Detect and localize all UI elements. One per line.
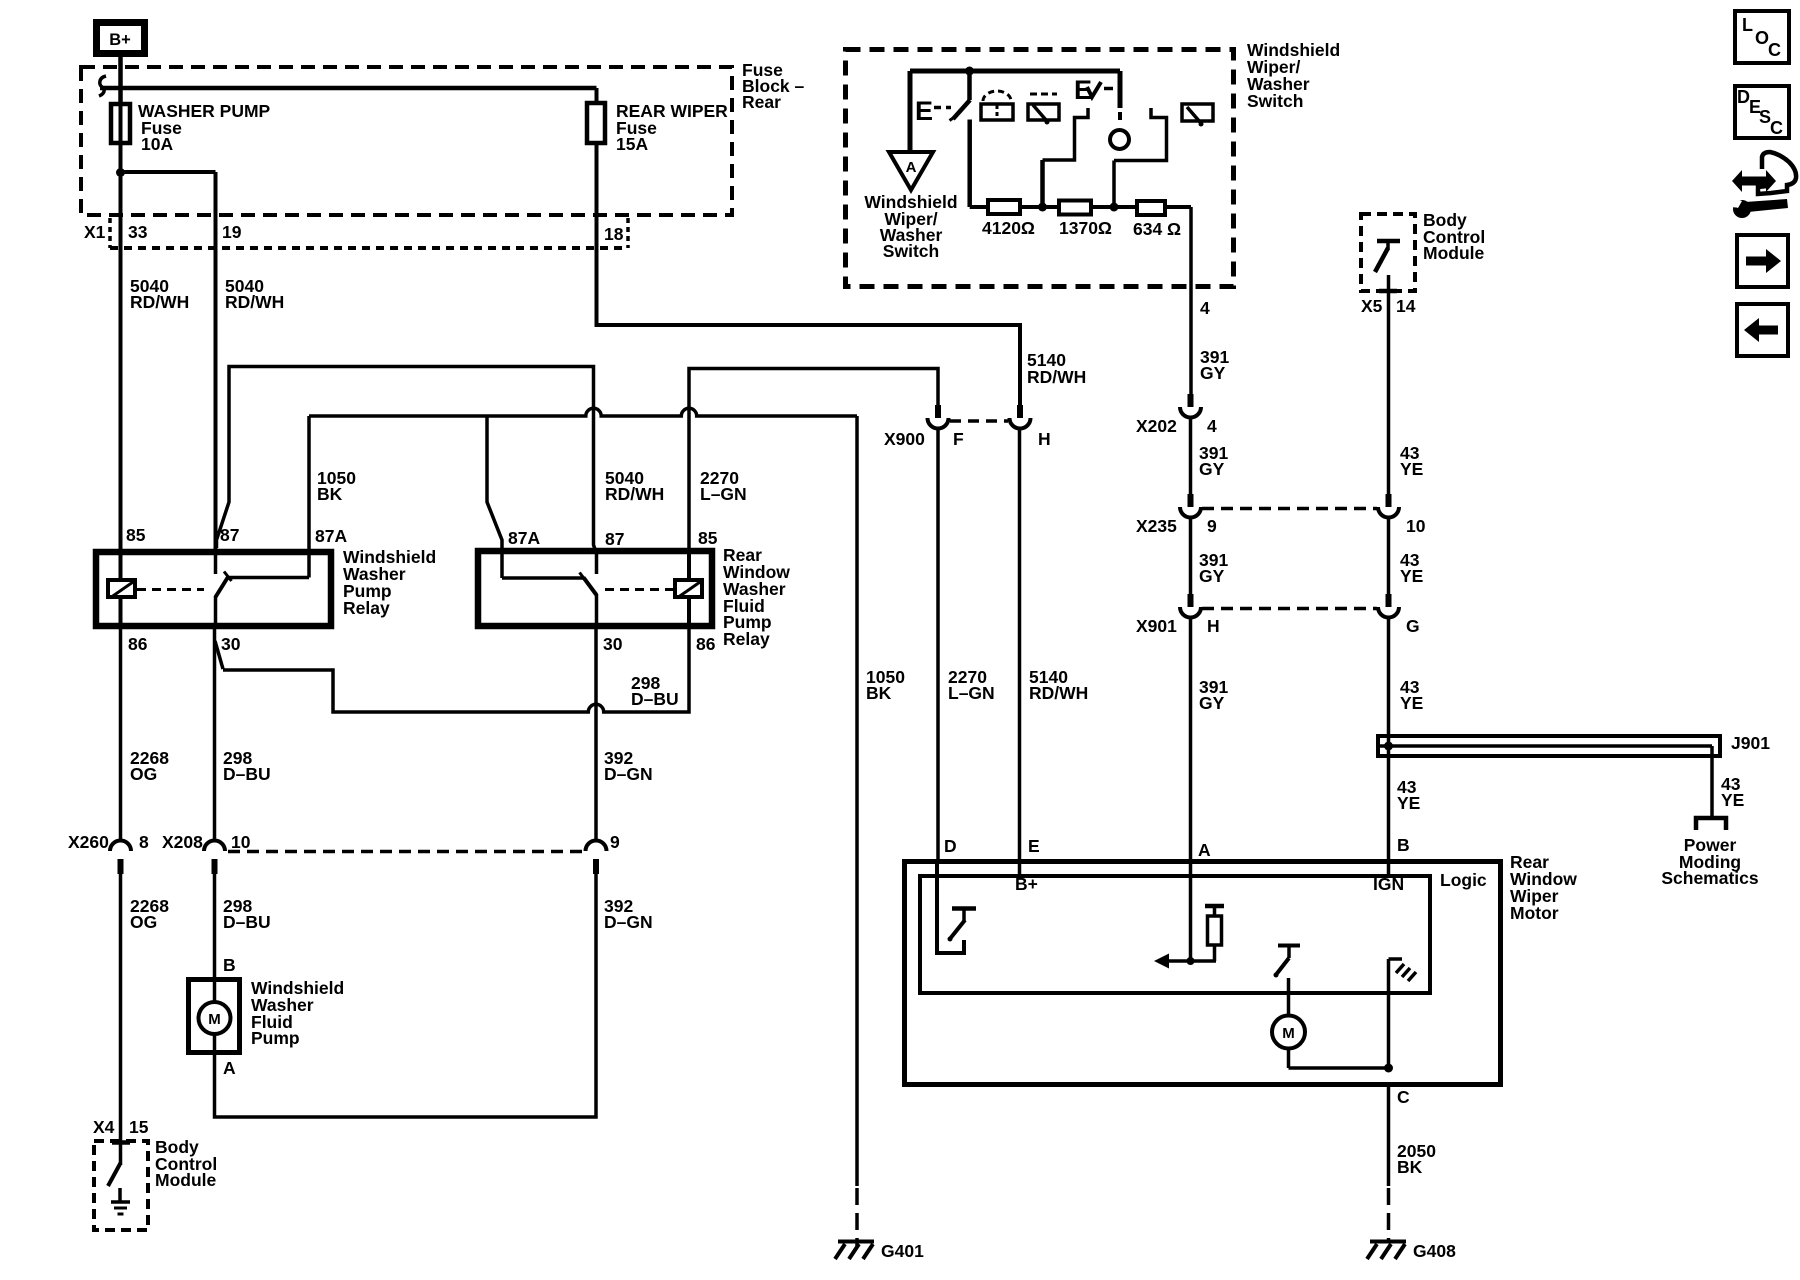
splice pack J901: [1378, 736, 1720, 816]
svg-text:X901: X901: [1136, 616, 1177, 636]
svg-text:X5: X5: [1361, 296, 1383, 316]
svg-text:30: 30: [221, 634, 241, 654]
svg-text:IGN: IGN: [1373, 874, 1404, 894]
switch name label (inside): [864, 192, 957, 261]
svg-text:Pump: Pump: [251, 1028, 300, 1048]
relay K1 pin 86 label: [128, 634, 148, 654]
fuse REAR WIPER 15A: [587, 88, 605, 143]
triangle connector A: [889, 152, 933, 190]
wire 5140 RD/WH fuse 18 to X900-H: [597, 250, 1021, 405]
label X900: [884, 429, 925, 449]
relay K2 pin 30 label: [603, 634, 623, 654]
label 2050 BK: [1397, 1141, 1436, 1177]
wire 391 GY X202 to X235: [1189, 418, 1193, 495]
svg-text:D: D: [944, 836, 957, 856]
wire 298 D-BU X208 to pump B: [213, 874, 217, 977]
svg-text:8: 8: [139, 832, 149, 852]
motor pin A label: [1198, 840, 1211, 860]
icon washer (wash position): [981, 91, 1013, 121]
svg-text:M: M: [1282, 1025, 1295, 1042]
wire pin C out: [1387, 1085, 1391, 1186]
rear window wiper motor box: [905, 862, 1501, 1085]
wire D into logic: [937, 859, 964, 953]
BCM X4 name label: [155, 1137, 217, 1190]
svg-text:15: 15: [129, 1117, 149, 1137]
label 391 GY (X235-X901): [1199, 550, 1228, 586]
motor name label: [1510, 852, 1577, 923]
label 43 YE (below J901): [1397, 777, 1420, 813]
relay K1 contact 87A link: [229, 552, 309, 578]
wire motor M to pin C: [1289, 1049, 1389, 1069]
wire 43 YE X235 to X901: [1387, 518, 1391, 595]
label X5 pin 14: [1396, 296, 1416, 316]
BCM X5 name label: [1423, 210, 1485, 263]
svg-text:Module: Module: [1423, 243, 1485, 263]
label X900 pin F: [953, 429, 964, 449]
wire A into logic: [1189, 859, 1193, 961]
label X901: [1136, 616, 1177, 636]
label 43 YE (branch): [1721, 774, 1744, 810]
svg-text:Relay: Relay: [723, 629, 770, 649]
label Logic: [1440, 870, 1487, 890]
connector X235 dashed link: [1202, 507, 1377, 511]
relay K2 pin 87A label: [508, 528, 540, 548]
svg-text:Motor: Motor: [1510, 903, 1559, 923]
svg-text:GY: GY: [1199, 693, 1225, 713]
label 392 D-GN (lower): [604, 896, 653, 932]
switch pin 4 label: [1200, 298, 1210, 318]
icon button DESC: [1735, 86, 1789, 138]
resistor 634 ohm: [1137, 201, 1165, 215]
junction at J901: [1384, 742, 1393, 751]
svg-text:4: 4: [1200, 298, 1210, 318]
rotary contact O: [1110, 130, 1129, 149]
label 5040 RD/WH (33): [130, 276, 189, 312]
junction at pin C net: [1384, 1064, 1393, 1073]
wire 391 GY X235 to X901: [1189, 518, 1193, 595]
icon button LOC: [1735, 11, 1789, 63]
connector X208 pin 10: [204, 841, 225, 874]
svg-text:D–BU: D–BU: [223, 764, 271, 784]
position sensor resistor (A): [1154, 906, 1224, 969]
svg-text:OG: OG: [130, 912, 157, 932]
svg-text:RD/WH: RD/WH: [1029, 683, 1088, 703]
windshield washer fluid pump motor: [189, 977, 240, 1055]
svg-text:X4: X4: [93, 1117, 115, 1137]
switch ladder wire (rear): [1110, 108, 1167, 212]
svg-text:L–GN: L–GN: [948, 683, 995, 703]
svg-text:B+: B+: [1015, 874, 1038, 894]
svg-text:30: 30: [603, 634, 623, 654]
pin 19: [222, 222, 242, 242]
svg-text:87: 87: [220, 525, 239, 545]
BCM X5 dashed box: [1361, 214, 1415, 291]
svg-text:Logic: Logic: [1440, 870, 1487, 890]
svg-text:D–BU: D–BU: [223, 912, 271, 932]
svg-text:M: M: [208, 1011, 221, 1028]
label REAR WIPER Fuse 15A: [616, 101, 728, 154]
connector X260 pin 8: [110, 841, 131, 874]
svg-text:D–GN: D–GN: [604, 912, 653, 932]
switch output wire pin 4: [1189, 207, 1193, 394]
svg-text:87A: 87A: [315, 526, 347, 546]
BCM X4 internal switch blade: [108, 1163, 121, 1186]
relay K1 contact 87 stub: [214, 552, 218, 574]
label X235 pin 9: [1207, 516, 1217, 536]
wire 392 D-GN X208-9 to pump A: [215, 874, 597, 1117]
relay K2 Rear Window Washer Fluid Pump Relay box: [478, 551, 712, 626]
label WASHER PUMP Fuse 10A: [138, 101, 271, 154]
svg-text:1370Ω: 1370Ω: [1059, 218, 1112, 238]
label IGN (logic): [1373, 874, 1404, 894]
BCM X4 entry tick: [112, 1140, 130, 1145]
icon jump-to-schematic (arrows and wrench): [1726, 152, 1796, 218]
relay K1 pin 87A label: [315, 526, 347, 546]
connector X901 pin H: [1180, 594, 1201, 618]
svg-text:634 Ω: 634 Ω: [1133, 219, 1181, 239]
wire 1050 BK dashed tail to G401: [855, 1188, 859, 1246]
label X260 pin 8: [139, 832, 149, 852]
bus wire to rear wiper fuse: [100, 86, 597, 91]
svg-text:Switch: Switch: [883, 241, 939, 261]
pump pin B label: [223, 955, 236, 975]
wire 2270 L-GN relay2-85 to X900-F: [689, 369, 938, 553]
label 391 GY (pin4): [1200, 347, 1229, 383]
relay K1 Windshield Washer Pump Relay box: [96, 552, 331, 626]
switch wiper blade E: [950, 71, 971, 121]
label X208: [162, 832, 203, 852]
icon rear wiper: [1182, 104, 1213, 127]
label X900 pin H: [1038, 429, 1051, 449]
contact Ev label: [1074, 75, 1101, 105]
relay K1 blade: [216, 572, 232, 598]
wire B+ to washer pump fuse: [118, 57, 123, 104]
svg-text:86: 86: [128, 634, 148, 654]
motor pin D label: [944, 836, 957, 856]
label 4120 ohm: [982, 218, 1035, 238]
label 5040 RD/WH (net): [605, 468, 664, 504]
wire blade to motor M: [1287, 978, 1291, 1016]
label 298 D-BU (loop): [631, 673, 679, 709]
svg-text:RD/WH: RD/WH: [605, 484, 664, 504]
BCM X5 internal contact: [1377, 241, 1400, 250]
wire 2268 OG relay1-86 to X260: [119, 629, 123, 840]
label 2268 OG (upper): [130, 748, 169, 784]
svg-text:H: H: [1207, 616, 1220, 636]
label 392 D-GN (upper): [604, 748, 653, 784]
svg-text:G401: G401: [881, 1241, 924, 1261]
label Power Moding Schematics: [1661, 835, 1759, 888]
BCM X5 exit tick: [1379, 289, 1397, 294]
switch assembly name label (right): [1247, 40, 1340, 111]
connector X208 pin 9: [586, 841, 607, 874]
svg-text:YE: YE: [1397, 793, 1420, 813]
svg-text:86: 86: [696, 634, 716, 654]
svg-text:Module: Module: [155, 1170, 217, 1190]
label J901: [1731, 733, 1770, 753]
label 2268 OG (lower): [130, 896, 169, 932]
svg-text:O: O: [1755, 28, 1769, 48]
label motor pin B: [1397, 835, 1410, 855]
wire through washer fuse: [119, 104, 123, 172]
contact Ev dash: [1104, 87, 1113, 91]
svg-text:X900: X900: [884, 429, 925, 449]
off-page connector to power moding: [1696, 818, 1726, 830]
junction washer fuse output: [116, 168, 125, 177]
bus curl symbol: [99, 76, 106, 96]
svg-text:J901: J901: [1731, 733, 1770, 753]
relay K2 pin 87 label: [605, 529, 624, 549]
svg-text:85: 85: [698, 528, 718, 548]
svg-text:L: L: [1742, 15, 1753, 35]
svg-text:C: C: [1768, 40, 1781, 60]
run switch contact (motor): [1278, 946, 1300, 959]
svg-text:Rear: Rear: [742, 92, 781, 112]
label 5140 RD/WH (top): [1027, 350, 1086, 387]
label 391 GY (to motor): [1199, 677, 1228, 713]
svg-text:15A: 15A: [616, 134, 648, 154]
label 1050 BK (left): [317, 468, 356, 504]
svg-text:YE: YE: [1400, 566, 1423, 586]
wire 391 GY X901 to motor A: [1189, 618, 1193, 860]
svg-text:BK: BK: [317, 484, 343, 504]
svg-text:H: H: [1038, 429, 1051, 449]
svg-text:14: 14: [1396, 296, 1416, 316]
pin 33: [128, 222, 148, 242]
wire 298 D-BU loop to relay2-86: [223, 629, 689, 712]
icon wiper (wipe position): [1028, 94, 1059, 125]
svg-text:4: 4: [1207, 416, 1217, 436]
connector X235 pin 10: [1378, 494, 1399, 518]
resistor 4120 ohm: [988, 200, 1020, 214]
svg-text:GY: GY: [1199, 459, 1225, 479]
relay K2 name label: [723, 545, 790, 649]
run switch blade (motor): [1274, 958, 1290, 978]
switch corner wire to O: [1118, 71, 1123, 120]
svg-text:F: F: [953, 429, 964, 449]
svg-text:9: 9: [610, 832, 620, 852]
park switch contact (D): [952, 909, 976, 923]
svg-text:D–GN: D–GN: [604, 764, 653, 784]
wire 5040 RD/WH relay1-87 to relay2-87: [217, 367, 597, 553]
wire 5040 RD/WH fuse 19 to relay 87: [214, 250, 218, 552]
connector X202 pin 4: [1180, 394, 1201, 418]
svg-text:OG: OG: [130, 764, 157, 784]
svg-text:9: 9: [1207, 516, 1217, 536]
ground G408: [1367, 1241, 1456, 1261]
svg-text:D–BU: D–BU: [631, 689, 679, 709]
connector X1 strip: [110, 218, 628, 248]
motor internal ground: [1389, 959, 1417, 1068]
svg-text:A: A: [1198, 840, 1211, 860]
svg-text:A: A: [223, 1058, 236, 1078]
fuse WASHER PUMP 10A: [111, 104, 130, 143]
wire 2050 BK dashed tail: [1387, 1188, 1391, 1240]
wire branch to pin 19: [121, 172, 216, 250]
switch ladder wire (wash): [1038, 108, 1088, 212]
label 2270 L-GN (lower): [948, 667, 995, 703]
label 5140 RD/WH (lower): [1029, 667, 1088, 703]
label 5040 RD/WH (19): [225, 276, 284, 312]
wire 43 YE X901 to motor B: [1387, 618, 1391, 860]
label 1050 BK (right): [866, 667, 905, 703]
label X208 pin 9: [610, 832, 620, 852]
label 391 GY (X202-X235): [1199, 443, 1228, 479]
label 43 YE (X5): [1400, 443, 1423, 479]
contact E label: [915, 96, 933, 126]
wire E into logic: [1018, 429, 1022, 876]
svg-text:X202: X202: [1136, 416, 1177, 436]
fuse block dashed box: [81, 67, 732, 215]
motor M: [1272, 1016, 1305, 1049]
label Fuse Block - Rear: [742, 60, 805, 112]
battery feed B+: [97, 23, 145, 54]
svg-text:X208: X208: [162, 832, 203, 852]
svg-text:RD/WH: RD/WH: [1027, 367, 1086, 387]
label X901 pin H: [1207, 616, 1220, 636]
relay K1 pin 85 label: [126, 525, 146, 545]
svg-text:10: 10: [231, 832, 251, 852]
wire 5040 RD/WH fuse 33 to relay coil 85: [119, 172, 123, 552]
relay K1 pin 87 label: [220, 525, 239, 545]
wire B into logic: [1387, 859, 1391, 876]
relay K2 pin 85 label: [698, 528, 718, 548]
switch resistor feed wire: [967, 120, 972, 208]
relay K1 pin 30 stub: [214, 596, 218, 629]
svg-text:A: A: [906, 159, 917, 176]
wire 1050 BK relay1-87A to ground run: [309, 408, 857, 1186]
BCM X4 dashed box: [94, 1141, 148, 1230]
connector X901 dashed link: [1202, 607, 1377, 611]
label X235: [1136, 516, 1177, 536]
svg-text:Relay: Relay: [343, 598, 390, 618]
connector X900 pin F: [928, 405, 949, 429]
svg-text:G408: G408: [1413, 1241, 1456, 1261]
wire 2268 OG X260 to BCM X4: [119, 874, 123, 1165]
label X5: [1361, 296, 1383, 316]
label X202: [1136, 416, 1177, 436]
label X202 pin 4: [1207, 416, 1217, 436]
svg-text:GY: GY: [1200, 363, 1226, 383]
wire 43 YE X5 to X235-10: [1387, 291, 1391, 494]
connector X901 pin G: [1378, 594, 1399, 618]
relay K2 coil: [675, 552, 702, 629]
relay K2 pin 30 stub: [595, 594, 599, 629]
svg-text:X1: X1: [84, 222, 106, 242]
svg-text:18: 18: [604, 224, 624, 244]
wire 2270 L-GN X900-F to motor D: [936, 429, 940, 860]
label B+ (logic): [1015, 874, 1038, 894]
svg-text:B: B: [223, 955, 236, 975]
resistor ladder wire: [970, 205, 1191, 209]
svg-text:GY: GY: [1199, 566, 1225, 586]
BCM X4 internal ground: [111, 1188, 130, 1214]
switch assembly dashed box: [846, 50, 1234, 287]
switch bus junction: [965, 67, 974, 76]
switch bus wire: [910, 71, 1120, 152]
wire 392 D-GN relay2-30 to X208-9: [594, 629, 598, 840]
label 2270 L-GN (net): [700, 468, 747, 504]
label X235 pin 10: [1406, 516, 1426, 536]
label 298 D-BU (upper): [223, 748, 271, 784]
label 298 D-BU (lower): [223, 896, 271, 932]
label 634 ohm: [1133, 219, 1181, 239]
svg-text:BK: BK: [866, 683, 892, 703]
svg-text:4120Ω: 4120Ω: [982, 218, 1035, 238]
svg-text:85: 85: [126, 525, 146, 545]
label X4: [93, 1117, 115, 1137]
svg-text:G: G: [1406, 616, 1420, 636]
wire 1050 BK branch to relay2-87A: [487, 416, 502, 552]
label motor pin C: [1397, 1087, 1410, 1107]
label X260: [68, 832, 109, 852]
relay K1 armature dashes: [137, 588, 204, 591]
svg-text:Switch: Switch: [1247, 91, 1303, 111]
svg-text:RD/WH: RD/WH: [130, 292, 189, 312]
wire 298 D-BU relay1-30 down to X208-10: [215, 629, 224, 840]
relay K1 coil: [108, 552, 135, 629]
svg-text:YE: YE: [1400, 693, 1423, 713]
BCM X5 output wire: [1387, 275, 1391, 291]
label 1370 ohm: [1059, 218, 1112, 238]
pin 18: [604, 224, 624, 244]
icon button previous page (left arrow): [1737, 304, 1788, 356]
svg-text:L–GN: L–GN: [700, 484, 747, 504]
contact E dashes: [934, 106, 951, 110]
label X1: [84, 222, 106, 242]
relay K2 contact 87A link: [502, 552, 587, 582]
svg-text:B+: B+: [109, 31, 131, 49]
label X4 pin 15: [129, 1117, 149, 1137]
connector X900 pin H: [1010, 405, 1031, 429]
svg-text:YE: YE: [1400, 459, 1423, 479]
svg-text:YE: YE: [1721, 790, 1744, 810]
connector X208 dashed link: [228, 850, 583, 854]
svg-text:C: C: [1397, 1087, 1410, 1107]
svg-text:33: 33: [128, 222, 148, 242]
connector X235 pin 9: [1180, 494, 1201, 518]
label X901 pin G: [1406, 616, 1420, 636]
pump name label: [251, 978, 344, 1048]
relay K2 blade: [584, 578, 597, 596]
svg-text:10A: 10A: [141, 134, 173, 154]
svg-text:10: 10: [1406, 516, 1426, 536]
ground G401: [835, 1241, 924, 1261]
svg-text:B: B: [1397, 835, 1410, 855]
relay K2 armature dashes: [605, 588, 673, 591]
relay K1 pin 30 label: [221, 634, 241, 654]
motor pin E label: [1028, 836, 1040, 856]
svg-text:E: E: [915, 96, 933, 126]
label X208 pin 10: [231, 832, 251, 852]
svg-text:X260: X260: [68, 832, 109, 852]
relay K2 pin 86 label: [696, 634, 716, 654]
BCM X5 internal blade: [1375, 248, 1388, 272]
label 43 YE (X235-X901): [1400, 550, 1423, 586]
label 43 YE (to J901): [1400, 677, 1423, 713]
svg-text:X235: X235: [1136, 516, 1177, 536]
resistor 1370 ohm: [1059, 201, 1091, 215]
svg-text:Schematics: Schematics: [1661, 868, 1759, 888]
svg-text:E: E: [1028, 836, 1040, 856]
wire rear wiper fuse to pin 18: [595, 143, 599, 250]
icon button next page (right arrow): [1737, 235, 1788, 287]
svg-text:RD/WH: RD/WH: [225, 292, 284, 312]
svg-text:87A: 87A: [508, 528, 540, 548]
svg-text:C: C: [1770, 118, 1783, 138]
relay K2 contact 87 stub: [595, 552, 599, 574]
connector X900 dashed link: [950, 419, 1008, 423]
